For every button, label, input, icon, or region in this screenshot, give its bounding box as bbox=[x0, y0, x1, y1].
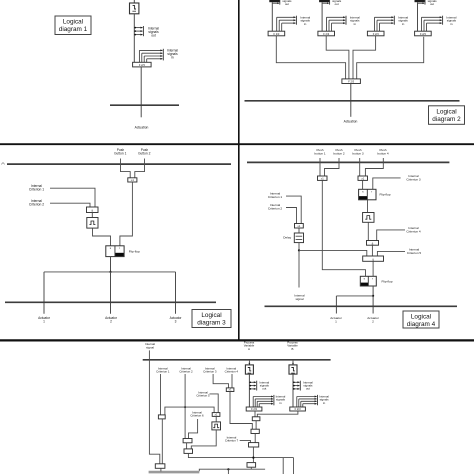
wire sensor to voter (diagram 5) bbox=[292, 374, 294, 407]
wire criterion 2 drop (diagram 5) bbox=[184, 374, 186, 439]
AND gate H3 (diagram 5) bbox=[184, 449, 193, 454]
actuation rail (diagram 3) bbox=[5, 301, 216, 303]
wire internal criterion 1 (diagram 3) bbox=[50, 188, 95, 207]
OR gate 3 criteria (diagram 4) bbox=[295, 224, 304, 229]
wire sensor to voter (diagram 2 column) bbox=[271, 2, 273, 31]
wire sensor to voter (diagram 5) bbox=[248, 374, 250, 407]
svg-text:Delay: Delay bbox=[283, 236, 291, 240]
OR gate G (diagram 5) bbox=[155, 464, 165, 469]
svg-text:F 2/3: F 2/3 bbox=[420, 32, 426, 36]
wire internal criterion 4 to AND1 (diagram 4) bbox=[377, 230, 405, 241]
svg-text:Actuation: Actuation bbox=[344, 119, 358, 123]
svg-text:diagram 2: diagram 2 bbox=[432, 116, 461, 123]
wire criterion 3 bend (diagram 5) bbox=[213, 374, 228, 388]
wire H3 output long horizontal (diagram 5) bbox=[188, 453, 293, 457]
svg-text:in: in bbox=[171, 55, 174, 59]
svg-text:button 1: button 1 bbox=[115, 152, 127, 156]
wire F output (diagram 5) bbox=[250, 467, 252, 469]
internal signals in arrows (diagram 5) bbox=[253, 396, 273, 398]
svg-text:Criterion 6: Criterion 6 bbox=[190, 414, 204, 418]
wire sensor to voter (diagram 2 column) bbox=[417, 2, 419, 31]
svg-text:in: in bbox=[354, 22, 357, 26]
svg-text:F 2/3: F 2/3 bbox=[139, 63, 145, 67]
svg-text:in: in bbox=[402, 22, 405, 26]
internal signals in arrows (diagram 5) bbox=[297, 396, 317, 398]
AND gate E (diagram 5) bbox=[249, 443, 259, 447]
svg-text:out: out bbox=[151, 33, 156, 37]
internal signals in arrows (diagram 2 column) bbox=[375, 16, 394, 18]
wire internal signal long drop (diagram 5) bbox=[149, 350, 159, 463]
voter box (diagram 2 column) bbox=[415, 31, 432, 36]
wire push button 2 to OR gate (diagram 3) bbox=[135, 159, 145, 178]
svg-text:Logical: Logical bbox=[411, 314, 431, 321]
wire junction to AND2 (diagram 4) bbox=[299, 250, 367, 256]
wire OR-c5 to pulse shaper (diagram 5) bbox=[215, 416, 217, 422]
diagram 1 label box bbox=[55, 16, 91, 35]
pulse shaper (diagram 3) bbox=[87, 218, 98, 229]
wire voter2 to center voter (diagram 2) bbox=[326, 36, 349, 79]
svg-text:Flip-flop: Flip-flop bbox=[380, 193, 391, 197]
wire criterion 1 drop (diagram 5) bbox=[160, 374, 162, 415]
OR gate 1 (diagram 4) bbox=[318, 176, 328, 180]
actuation rail (diagram 4) bbox=[265, 305, 458, 307]
diagram 3 label box bbox=[192, 310, 231, 328]
diagram 4 label box bbox=[403, 311, 439, 328]
voter F1 bbox=[133, 62, 152, 67]
OR gate 2 (diagram 4) bbox=[358, 176, 368, 180]
svg-text:diagram 1: diagram 1 bbox=[59, 26, 88, 33]
internal signals out arrows cut at top edge (diagram 2) bbox=[415, 0, 425, 2]
svg-text:Flip-flop: Flip-flop bbox=[129, 250, 140, 254]
frame border above bottom diagram bbox=[0, 339, 474, 341]
svg-text:Actuation: Actuation bbox=[135, 126, 149, 130]
flip-flop FF2 (diagram 4) bbox=[360, 276, 376, 286]
junction node (diagram 3) bbox=[109, 271, 111, 273]
svg-text:Criterion 3: Criterion 3 bbox=[406, 178, 421, 182]
wire push button 2 to OR1 (diagram 4) bbox=[325, 158, 340, 176]
wire voter B to OR-C (diagram 5) bbox=[257, 411, 298, 417]
svg-text:out: out bbox=[262, 387, 266, 391]
junction node collector (diagram 5) bbox=[227, 468, 229, 470]
svg-text:button 1: button 1 bbox=[314, 152, 325, 156]
wire AND-D to E (diagram 5) bbox=[254, 434, 256, 443]
svg-text:A: A bbox=[248, 347, 250, 351]
wire push button 4 to OR2 (diagram 4) bbox=[365, 158, 383, 176]
junction criterion 2 with cross wire (diagram 5) bbox=[184, 406, 186, 408]
wire OR gate to flip-flop reset (diagram 3) bbox=[120, 182, 132, 246]
top rail (diagram 4) bbox=[247, 161, 449, 163]
AND gate criteria (diagram 3) bbox=[87, 207, 99, 213]
svg-text:diagram 3: diagram 3 bbox=[197, 320, 226, 327]
internal signals out arrows (diagram 5) bbox=[293, 381, 299, 383]
wire OR1 long drop to flip-flop 2 (diagram 4) bbox=[322, 180, 365, 276]
wire criterion 4 drop (diagram 5) bbox=[231, 374, 233, 388]
svg-text:Criterion 1: Criterion 1 bbox=[156, 370, 170, 374]
flip-flop FF1 (diagram 4) bbox=[359, 189, 376, 200]
svg-text:out: out bbox=[306, 387, 310, 391]
wire flip-flop output (diagram 3) bbox=[110, 257, 112, 272]
svg-text:F 2/3: F 2/3 bbox=[373, 32, 379, 36]
wire junction down internal signal (diagram 4) bbox=[298, 250, 300, 287]
svg-text:in: in bbox=[279, 401, 282, 405]
pulse shaper (diagram 5) bbox=[212, 422, 221, 430]
OR gate for push buttons (diagram 3) bbox=[128, 178, 137, 182]
svg-text:1: 1 bbox=[335, 319, 337, 323]
svg-text:Criterion 4: Criterion 4 bbox=[406, 230, 421, 234]
svg-text:B: B bbox=[292, 347, 294, 351]
svg-text:Logical: Logical bbox=[436, 108, 456, 115]
wire push button 1 to OR gate (diagram 3) bbox=[121, 159, 131, 178]
svg-text:F 2/3: F 2/3 bbox=[323, 32, 329, 36]
internal signals out arrows (diagram 1) bbox=[134, 27, 142, 29]
AND gate F (diagram 5) bbox=[247, 463, 256, 468]
svg-text:r: r bbox=[119, 246, 120, 250]
wire voter3 to center voter (diagram 2) bbox=[353, 36, 376, 79]
svg-text:button 2: button 2 bbox=[139, 152, 151, 156]
svg-text:3: 3 bbox=[175, 319, 177, 323]
wire OR-c34 long route to AND-D (diagram 5) bbox=[230, 392, 252, 430]
collector wire (diagram 5) bbox=[199, 469, 265, 471]
svg-text:Criterion 1: Criterion 1 bbox=[29, 188, 44, 192]
svg-text:Logical: Logical bbox=[63, 19, 83, 26]
voter box (diagram 5) bbox=[246, 407, 262, 411]
svg-text:Criterion 2: Criterion 2 bbox=[179, 370, 193, 374]
grey rail at bottom edge (diagram 5) bbox=[149, 471, 200, 474]
svg-text:r: r bbox=[371, 189, 372, 193]
svg-text:F 2/3: F 2/3 bbox=[273, 32, 279, 36]
wire sensor to voter (diagram 2 column) bbox=[321, 2, 323, 31]
frame divider between diagram 1 and 2 / 3 and 4 bbox=[238, 0, 240, 340]
junction node FF2 output (diagram 4) bbox=[372, 295, 374, 297]
svg-text:1: 1 bbox=[43, 319, 45, 323]
svg-text:F 2/3: F 2/3 bbox=[251, 407, 257, 411]
voter box (diagram 5) bbox=[290, 407, 306, 411]
svg-text:Criterion 7: Criterion 7 bbox=[225, 439, 239, 443]
internal signals in arrows (diagram 2 column) bbox=[277, 16, 296, 18]
svg-text:F 2/3: F 2/3 bbox=[295, 407, 301, 411]
AND gate D (diagram 5) bbox=[251, 429, 259, 433]
wire to actuator 2 (diagram 4) bbox=[372, 296, 374, 314]
svg-text:out: out bbox=[335, 2, 339, 6]
svg-text:&: & bbox=[372, 257, 374, 261]
wire OR-C to AND-D (diagram 5) bbox=[255, 421, 257, 430]
wire voter4 to center voter (diagram 2) bbox=[357, 37, 424, 79]
wire internal criterion 1 (diagram 4) bbox=[286, 196, 301, 223]
frame border between top row and middle row bbox=[0, 143, 474, 145]
svg-text:out: out bbox=[430, 2, 434, 6]
svg-text:Flip-flop: Flip-flop bbox=[382, 280, 393, 284]
distribution wire to actuators (diagram 3) bbox=[44, 271, 176, 273]
svg-text:button 3: button 3 bbox=[352, 152, 363, 156]
actuation bus (diagram 1) bbox=[110, 104, 179, 106]
wire to actuator 2 (diagram 3) bbox=[110, 272, 112, 314]
wire internal criterion 2 (diagram 3) bbox=[50, 203, 90, 207]
voter box (diagram 2 column) bbox=[318, 31, 335, 36]
flip-flop FF3 (diagram 3) bbox=[106, 246, 124, 257]
svg-text:&: & bbox=[372, 241, 374, 245]
wire pulse shaper to flip-flop set (diagram 3) bbox=[93, 228, 111, 246]
wire pulse shaper to AND-H3 (diagram 5) bbox=[191, 430, 216, 449]
svg-text:Logical: Logical bbox=[201, 312, 221, 319]
wire internal criterion 5 to AND2 (diagram 4) bbox=[377, 251, 405, 256]
wire OR2 to flip-flop 1 (diagram 4) bbox=[362, 180, 364, 189]
internal signals in arrows (diagram 2 column) bbox=[422, 16, 442, 18]
wire collector drop to edge (diagram 5) bbox=[227, 469, 229, 474]
OR gate criteria 3-4 (diagram 5) bbox=[226, 388, 234, 392]
wire criterion 6 bend (diagram 5) bbox=[189, 419, 198, 439]
wire E output to junction (diagram 5) bbox=[252, 447, 254, 462]
svg-text:Criterion 5: Criterion 5 bbox=[407, 251, 422, 255]
AND gate 1 (diagram 4) bbox=[367, 241, 379, 246]
OR gate c1 (diagram 5) bbox=[158, 415, 165, 419]
wire H2 to H3 (diagram 5) bbox=[186, 443, 188, 449]
wire FF1 to pulse shaper (diagram 4) bbox=[367, 200, 369, 213]
internal signals out arrows (diagram 5) bbox=[249, 381, 255, 383]
svg-text:button 2: button 2 bbox=[333, 152, 344, 156]
svg-text:in: in bbox=[450, 22, 453, 26]
OR gate c2-c6 H2 (diagram 5) bbox=[183, 439, 192, 443]
diagram 2 label box bbox=[429, 106, 465, 125]
sensor B1 bbox=[130, 3, 139, 14]
wire internal criterion 3 to flip-flop 1 (diagram 4) bbox=[373, 178, 401, 189]
svg-text:signal: signal bbox=[295, 297, 303, 301]
OR gate c5 (diagram 5) bbox=[212, 413, 220, 417]
voter box (diagram 2 column) bbox=[268, 31, 285, 36]
wire to actuator 3 (diagram 3) bbox=[175, 272, 177, 314]
svg-text:diagram 4: diagram 4 bbox=[407, 321, 436, 328]
voter box (diagram 2 column) bbox=[367, 31, 384, 36]
wire to actuator 1 (diagram 3) bbox=[43, 272, 45, 314]
svg-text:Criterion 4: Criterion 4 bbox=[225, 370, 239, 374]
wire FF2 output (diagram 4) bbox=[372, 286, 374, 296]
svg-text:&: & bbox=[91, 209, 93, 213]
internal signals in arrows (diagram 2 column) bbox=[327, 16, 346, 18]
svg-text:Criterion 3: Criterion 3 bbox=[203, 370, 217, 374]
svg-text:r: r bbox=[372, 276, 373, 280]
junction node delay output (diagram 4) bbox=[298, 249, 300, 251]
cross wire between OR-c1 and OR-c5 (diagram 5) bbox=[165, 407, 214, 415]
pulse shaper (diagram 4) bbox=[363, 213, 374, 223]
delay block (diagram 4) bbox=[294, 233, 303, 243]
internal signals in arrows (diagram 1) bbox=[139, 49, 162, 51]
wire pulse shaper to AND1 (diagram 4) bbox=[367, 222, 369, 240]
wire voter1 to center voter (diagram 2) bbox=[276, 36, 345, 79]
wire AND2 to flip-flop 2 (diagram 4) bbox=[372, 261, 374, 276]
svg-text:out: out bbox=[285, 2, 289, 6]
wire rail to sensor with arrowhead (diagram 5) bbox=[292, 361, 294, 365]
wire center voter to actuation bus (diagram 2) bbox=[350, 84, 352, 117]
center voter box (diagram 2) bbox=[342, 79, 361, 84]
svg-text:in: in bbox=[323, 401, 326, 405]
wire G output to grey rail (diagram 5) bbox=[160, 468, 162, 471]
svg-text:2: 2 bbox=[372, 319, 374, 323]
svg-text:2: 2 bbox=[110, 319, 112, 323]
wire criterion 5 (diagram 5) bbox=[210, 394, 219, 413]
top rail (diagram 5) bbox=[143, 359, 331, 361]
svg-text:button 4: button 4 bbox=[377, 152, 388, 156]
wire voter A to OR-C (diagram 5) bbox=[254, 411, 256, 417]
svg-text:Criterion 5: Criterion 5 bbox=[196, 394, 210, 398]
wire AND1 to AND2 (diagram 4) bbox=[371, 245, 373, 256]
svg-text:Criterion 2: Criterion 2 bbox=[268, 207, 283, 211]
wire push button 3 to OR2 (diagram 4) bbox=[359, 158, 361, 176]
actuation bus (diagram 2) bbox=[245, 100, 460, 102]
svg-text:Criterion 2: Criterion 2 bbox=[29, 203, 44, 207]
wire OR3 to delay (diagram 4) bbox=[298, 228, 300, 233]
wire right branch down 1 (diagram 5) bbox=[282, 458, 284, 474]
wire delay to junction (diagram 4) bbox=[298, 243, 300, 251]
wire voter F1 to actuation bus bbox=[140, 67, 142, 117]
wire internal criterion 2 (diagram 4) bbox=[286, 208, 297, 224]
svg-text:in: in bbox=[304, 22, 307, 26]
svg-text:Criterion 1: Criterion 1 bbox=[268, 195, 283, 199]
wire to actuator 1 (diagram 4) bbox=[335, 296, 337, 314]
wire rail to sensor with arrowhead (diagram 5) bbox=[248, 361, 250, 365]
distribution wire to actuators (diagram 4) bbox=[336, 295, 373, 297]
wire push button 1 to OR1 (diagram 4) bbox=[319, 158, 321, 176]
OR gate C voters (diagram 5) bbox=[252, 417, 260, 421]
AND gate 2 (diagram 4) bbox=[363, 256, 384, 261]
sensor box (diagram 5) bbox=[245, 365, 253, 374]
wire stub from top edge to sensor B1 bbox=[133, 0, 135, 3]
internal signals out arrows cut at top edge (diagram 2) bbox=[269, 0, 279, 2]
wire OR-c1 to G (diagram 5) bbox=[161, 419, 163, 464]
internal signals out arrows cut at top edge (diagram 2) bbox=[319, 0, 329, 2]
wire AND gate to pulse shaper (diagram 3) bbox=[91, 213, 93, 218]
sensor box (diagram 5) bbox=[289, 365, 297, 374]
top rail (diagram 3) bbox=[7, 163, 231, 165]
wire sensor B1 to voter F1 bbox=[133, 14, 135, 63]
svg-text:F 2/3: F 2/3 bbox=[348, 80, 354, 84]
junction node E output (diagram 5) bbox=[252, 457, 254, 459]
wire criterion 7 (diagram 5) bbox=[240, 440, 251, 442]
svg-text:signal: signal bbox=[146, 346, 154, 350]
wire right branch down 2 (diagram 5) bbox=[293, 458, 295, 474]
